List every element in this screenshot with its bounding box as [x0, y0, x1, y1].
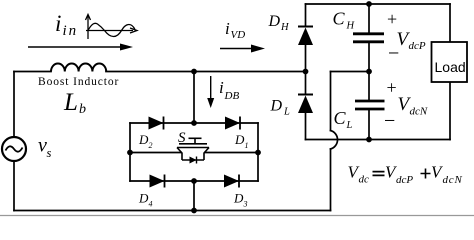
svg-text:H: H: [346, 21, 356, 32]
wire negative rail: [306, 139, 451, 141]
diode D1 (bridge top-right): [225, 117, 240, 130]
diode D2 (bridge top-left): [149, 117, 164, 130]
capacitor CL: [355, 101, 385, 109]
node A (junction inductor/bridge/VD): [191, 69, 197, 75]
wire inductor to node A: [106, 71, 194, 73]
wire capacitor leg top: [368, 4, 370, 33]
wire node A down to bridge top: [193, 72, 195, 124]
wire return lower: [330, 149, 332, 211]
svg-text:−: −: [384, 110, 395, 132]
svg-text:D: D: [268, 13, 281, 30]
svg-text:i: i: [219, 78, 224, 97]
wire bridge bottom side: [130, 180, 258, 182]
diode D4 (bridge bottom-left): [150, 175, 165, 188]
svg-text:3: 3: [243, 200, 248, 209]
svg-text:Load: Load: [435, 59, 466, 75]
wire bottom rail: [14, 210, 331, 212]
svg-text:VD: VD: [231, 29, 246, 41]
wire capacitor leg bottom: [368, 110, 370, 140]
wire top rail: [306, 3, 451, 5]
node bridge mid-right: [255, 150, 261, 156]
wire return hop: [331, 131, 338, 150]
svg-text:dcP: dcP: [409, 40, 426, 52]
node top rail / CH: [366, 1, 372, 7]
wire bridge bottom to rail: [193, 181, 195, 211]
switch S (bidirectional IGBT): [177, 138, 209, 160]
wire diode leg mid (DH to DL): [305, 45, 307, 94]
wire bridge mid left: [130, 152, 181, 154]
wire capacitor leg mid: [368, 43, 370, 101]
arrow i_VD: [220, 45, 265, 53]
svg-text:s: s: [47, 146, 52, 160]
wire i_VD (node A to diode leg): [194, 71, 306, 73]
svg-text:dcP: dcP: [396, 174, 413, 186]
node bridge mid-left: [127, 150, 133, 156]
node negative rail / CL: [366, 137, 372, 143]
svg-text:+: +: [387, 78, 397, 98]
svg-text:+: +: [387, 9, 397, 29]
svg-text:DB: DB: [224, 90, 240, 102]
svg-text:dcN: dcN: [410, 106, 428, 118]
wire bridge top side: [130, 122, 258, 124]
svg-text:dc: dc: [359, 174, 370, 186]
load box: [432, 42, 468, 82]
svg-text:S: S: [178, 130, 186, 146]
svg-text:D: D: [138, 191, 149, 206]
switch body diode: [190, 157, 197, 164]
wire bridge right side: [257, 123, 259, 181]
node bridge top: [191, 120, 197, 126]
node bridge bottom: [191, 178, 197, 184]
wire diode leg top (top rail to DH): [305, 4, 307, 27]
svg-text:D: D: [234, 132, 245, 147]
wire left rail: [13, 72, 15, 211]
diode D3 (bridge bottom-right): [224, 175, 239, 188]
diode DH: [298, 27, 313, 46]
svg-text:H: H: [280, 22, 290, 33]
svg-text:dcN: dcN: [443, 174, 463, 186]
source vs: [2, 137, 26, 161]
svg-text:D: D: [138, 132, 149, 147]
arrow i_DB: [207, 76, 214, 108]
svg-text:L: L: [346, 120, 353, 131]
svg-text:−: −: [388, 43, 399, 65]
scan artifact grey line: [0, 215, 474, 217]
svg-text:Boost Inductor: Boost Inductor: [38, 76, 119, 88]
capacitor CH: [353, 34, 384, 42]
wire bridge left side: [129, 123, 131, 181]
svg-text:4: 4: [149, 200, 153, 209]
svg-text:C: C: [333, 9, 346, 29]
svg-text:1: 1: [245, 141, 249, 150]
svg-text:C: C: [334, 108, 347, 128]
svg-text:D: D: [233, 191, 244, 206]
svg-text:2: 2: [149, 141, 153, 150]
diode DL: [298, 95, 313, 114]
node capacitor midpoint: [366, 69, 372, 75]
wire bridge mid right: [205, 152, 258, 154]
svg-text:i: i: [225, 19, 230, 38]
wire diode leg bottom (DL to neg rail): [305, 113, 307, 140]
wire right rail lower: [449, 82, 451, 140]
svg-text:L: L: [63, 89, 78, 116]
node diode-leg input: [303, 69, 309, 75]
inductor Lb: [51, 64, 106, 72]
svg-text:L: L: [283, 107, 290, 118]
svg-text:b: b: [79, 102, 86, 117]
wire cap midpoint to return: [331, 71, 370, 73]
node bottom rail / bridge: [191, 208, 197, 214]
arrow i_in: [28, 44, 133, 51]
equation Vdc = VdcP + VdcN: [348, 163, 463, 187]
wire return upper: [330, 72, 332, 131]
svg-text:in: in: [63, 23, 79, 39]
wire top main (source to inductor): [14, 71, 51, 73]
svg-text:D: D: [270, 98, 283, 115]
wire right rail upper: [449, 4, 451, 42]
svg-text:i: i: [55, 11, 61, 36]
sine reference symbol: [86, 15, 138, 40]
